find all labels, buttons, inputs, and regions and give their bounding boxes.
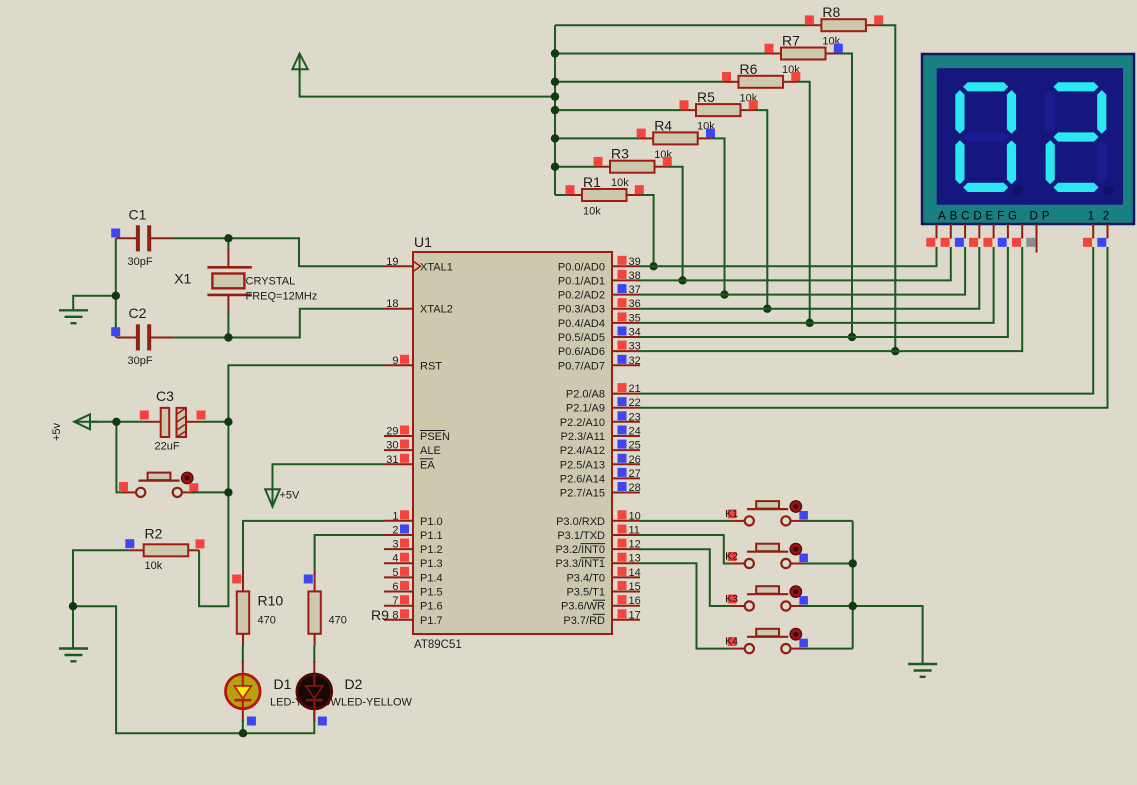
pin state marker pin 13	[618, 553, 627, 562]
svg-text:28: 28	[629, 482, 641, 494]
wire P0.6 to display segment G	[640, 247, 1022, 351]
pin state marker pin 24	[618, 426, 627, 435]
svg-text:P1.0: P1.0	[420, 516, 443, 528]
pin state marker pin 33	[618, 341, 627, 350]
svg-text:P3.0/RXD: P3.0/RXD	[556, 516, 605, 528]
svg-text:P0.7/AD7: P0.7/AD7	[558, 360, 605, 372]
pin state marker pin 27	[618, 468, 627, 477]
wire ground rail to LEDs	[73, 606, 314, 733]
svg-text:U1: U1	[414, 234, 432, 250]
svg-text:P1.7: P1.7	[420, 615, 443, 627]
pin marker reset button left	[119, 482, 128, 491]
svg-text:P3.3/INT1: P3.3/INT1	[555, 558, 605, 570]
MCU pin 36 P0.3/AD3	[558, 298, 641, 316]
svg-text:P2.1/A9: P2.1/A9	[566, 403, 605, 415]
MCU pin 2 P1.1	[384, 525, 443, 543]
wire button to RST net	[191, 491, 228, 493]
svg-text:31: 31	[386, 454, 398, 466]
pin marker R5 right	[749, 100, 758, 109]
MCU pin 34 P0.5/AD5	[558, 327, 641, 345]
bus junction row R3	[551, 163, 559, 171]
wire crystal bottom	[227, 312, 229, 338]
svg-text:15: 15	[629, 581, 641, 593]
svg-text:32: 32	[629, 355, 641, 367]
wire R5 right down to P0 line	[755, 110, 768, 309]
pin marker R5 left	[680, 100, 689, 109]
pin state marker pin 30	[400, 440, 409, 449]
svg-text:10k: 10k	[145, 560, 163, 572]
svg-text:P0.5/AD5: P0.5/AD5	[558, 332, 605, 344]
svg-text:P1.2: P1.2	[420, 544, 443, 556]
pin state marker pin 17	[618, 609, 627, 618]
svg-text:P2.7/A15: P2.7/A15	[560, 488, 605, 500]
node crystal top / C1	[224, 234, 232, 242]
wire RST net vertical	[199, 365, 384, 606]
node crystal bottom / C2	[224, 333, 232, 341]
wire R1 right down to P0 line	[641, 195, 654, 266]
wire bus to R5 left	[555, 109, 682, 111]
svg-text:C3: C3	[156, 388, 174, 404]
svg-text:K4: K4	[725, 636, 738, 648]
node P0.3 pull-up junction	[763, 305, 771, 313]
svg-text:K3: K3	[725, 593, 738, 605]
svg-text:10: 10	[629, 510, 641, 522]
node P0.2 pull-up junction	[720, 290, 728, 298]
svg-text:CRYSTAL: CRYSTAL	[246, 276, 296, 288]
resistor R1 10k	[568, 174, 641, 218]
wire bus to R1 left	[555, 194, 568, 196]
svg-text:33: 33	[629, 341, 641, 353]
pin state marker pin 32	[618, 355, 627, 364]
node P0.1 pull-up junction	[678, 276, 686, 284]
wire K4 right to common	[804, 648, 853, 650]
svg-text:29: 29	[386, 426, 398, 438]
MCU pin 26 P2.5/A13	[560, 454, 641, 472]
svg-text:30pF: 30pF	[128, 256, 153, 268]
wire C2 to XTAL2	[174, 309, 384, 338]
MCU pin 5 P1.4	[384, 567, 443, 585]
pin marker R2 right	[196, 539, 205, 548]
wire bus to R8 left	[555, 24, 807, 26]
pin state marker pin 38	[618, 270, 627, 279]
MCU pin 31 EA	[384, 454, 435, 472]
svg-text:5: 5	[392, 567, 398, 579]
pin marker D2 bottom	[318, 717, 327, 726]
pin state marker pin 39	[618, 256, 627, 265]
display digit 1 showing 0	[955, 82, 1023, 196]
pin state marker pin 4	[400, 553, 409, 562]
resistor R5 10k	[682, 89, 755, 133]
wire K1 right to common	[804, 520, 853, 522]
wire from +5V terminal to bus	[300, 69, 555, 96]
pin marker R3 left	[594, 157, 603, 166]
svg-text:R10: R10	[258, 593, 284, 609]
MCU pin 23 P2.2/A10	[560, 411, 641, 429]
svg-text:P1.6: P1.6	[420, 601, 443, 613]
svg-text:X1: X1	[174, 271, 191, 287]
svg-text:P2.6/A14: P2.6/A14	[560, 473, 605, 485]
push button K3	[732, 586, 804, 611]
MCU pin 29 PSEN	[384, 426, 450, 444]
pin state marker pin 22	[618, 397, 627, 406]
pin marker K2 right	[799, 554, 808, 563]
pin state marker pin 23	[618, 411, 627, 420]
svg-text:16: 16	[629, 595, 641, 607]
pin marker R7 left	[765, 44, 774, 53]
wire +5v to C3	[90, 421, 147, 423]
svg-text:ABCDEFG: ABCDEFG	[938, 211, 1021, 223]
MCU pin 4 P1.3	[384, 553, 443, 571]
wire bus to R3 left	[555, 166, 596, 168]
svg-text:R4: R4	[654, 117, 672, 133]
wire P2.0/A8 to display digit-1 common	[640, 247, 1093, 394]
resistor R10 470	[237, 570, 284, 646]
pin state marker pin 36	[618, 298, 627, 307]
wire P0.1 to display segment B	[640, 247, 951, 280]
wire +5v node down to button	[116, 422, 127, 493]
display pin F	[1007, 224, 1009, 239]
display pin digit 1	[1092, 224, 1094, 239]
pin marker reset button right	[189, 483, 198, 492]
svg-text:AT89C51: AT89C51	[414, 639, 462, 651]
node C1-C2 ground tap	[112, 292, 120, 300]
resistor R7 10k	[767, 33, 840, 77]
pin state marker pin 14	[618, 567, 627, 576]
node D1/ground rail	[239, 729, 247, 737]
svg-text:22uF: 22uF	[155, 441, 180, 453]
wire P3.2 to K3	[640, 549, 732, 606]
svg-text:+5v: +5v	[51, 422, 63, 441]
wire to D2	[313, 646, 315, 663]
svg-text:37: 37	[629, 284, 641, 296]
svg-text:P0.0/AD0: P0.0/AD0	[558, 261, 605, 273]
7-segment dual display (7SEG-MPX2-CC) showing 02	[922, 54, 1134, 224]
display pin B	[950, 224, 952, 239]
pin marker K3 left	[728, 595, 737, 604]
svg-text:ALE: ALE	[420, 445, 441, 457]
pin marker R8 right	[874, 15, 883, 24]
svg-text:P0.3/AD3: P0.3/AD3	[558, 304, 605, 316]
op-amp U1 AT89C51 microcontroller body	[413, 234, 612, 651]
power terminal +5V (EA pin)	[265, 487, 300, 507]
pin state marker pin 6	[400, 581, 409, 590]
wire P0.4 to display segment E	[640, 247, 994, 323]
resistor R2 10k	[130, 526, 199, 573]
pin state marker pin 12	[618, 539, 627, 548]
svg-text:36: 36	[629, 298, 641, 310]
svg-text:470: 470	[258, 615, 276, 627]
svg-text:P0.1/AD1: P0.1/AD1	[558, 275, 605, 287]
svg-text:P1.4: P1.4	[420, 572, 443, 584]
pin marker R2 left	[125, 539, 134, 548]
wire R8 right down to P0 line	[880, 25, 895, 351]
MCU pin 33 P0.6/AD6	[558, 341, 641, 359]
pin marker K1 left	[728, 509, 737, 518]
svg-text:C1: C1	[129, 207, 147, 223]
svg-text:10k: 10k	[583, 206, 601, 218]
wire C3 right	[200, 421, 228, 423]
svg-text:P0.4/AD4: P0.4/AD4	[558, 318, 605, 330]
svg-text:R2: R2	[145, 526, 163, 542]
svg-text:P2.2/A10: P2.2/A10	[560, 417, 605, 429]
pin state marker pin 16	[618, 595, 627, 604]
wire C1 to XTAL1	[174, 238, 384, 266]
svg-text:P1.5: P1.5	[420, 587, 443, 599]
MCU pin 38 P0.1/AD1	[558, 270, 641, 288]
svg-text:P2.4/A12: P2.4/A12	[560, 445, 605, 457]
MCU pin 13 P3.3/INT1	[555, 553, 640, 571]
bus junction row R4	[551, 134, 559, 142]
pin marker C1 left	[111, 229, 120, 238]
svg-text:P2.5/A13: P2.5/A13	[560, 459, 605, 471]
MCU pin 25 P2.4/A12	[560, 440, 641, 458]
ground (crystal circuit)	[59, 310, 88, 323]
MCU pin 35 P0.4/AD4	[558, 312, 641, 330]
MCU pin 30 ALE	[384, 440, 441, 458]
svg-text:D1: D1	[274, 676, 292, 692]
svg-text:11: 11	[629, 525, 640, 537]
node R2/ground	[69, 602, 77, 610]
wire R2 left to ground	[73, 550, 130, 648]
capacitor C1 30pF	[116, 207, 174, 268]
svg-text:26: 26	[629, 454, 641, 466]
svg-text:R6: R6	[740, 61, 758, 77]
svg-text:XTAL2: XTAL2	[420, 304, 453, 316]
svg-text:24: 24	[629, 426, 641, 438]
svg-text:7: 7	[392, 595, 398, 607]
MCU pin 27 P2.6/A14	[560, 468, 641, 486]
svg-text:23: 23	[629, 411, 641, 423]
svg-text:35: 35	[629, 312, 641, 324]
svg-text:25: 25	[629, 440, 641, 452]
wire P0.3 to display segment D	[640, 247, 979, 309]
display pin C	[964, 224, 966, 239]
svg-text:18: 18	[386, 298, 398, 310]
MCU pin 19 XTAL1	[384, 256, 453, 274]
pin state marker pin 28	[618, 482, 627, 491]
MCU pin 37 P0.2/AD2	[558, 284, 641, 302]
svg-text:3: 3	[392, 539, 398, 551]
pin state marker pin 10	[618, 510, 627, 519]
wire P0.5 to display segment F	[640, 247, 1008, 337]
wire bus to R7 left	[555, 53, 767, 55]
MCU pin 39 P0.0/AD0	[558, 256, 641, 274]
node button/RST/R2	[224, 488, 232, 496]
LED D2 LED-YELLOW (off)	[297, 646, 413, 722]
pin state marker pin 34	[618, 327, 627, 336]
resistor R6 10k	[725, 61, 798, 105]
wire D1 to ground rail	[242, 720, 244, 733]
resistor R4 10k	[639, 117, 712, 161]
svg-text:12: 12	[629, 539, 641, 551]
pin state marker pin 26	[618, 454, 627, 463]
push button K2	[732, 543, 804, 568]
bus junction +5V feed	[551, 92, 559, 100]
svg-text:R1: R1	[583, 174, 601, 190]
pin marker R1 right	[635, 185, 644, 194]
resistor R8 10k	[807, 4, 880, 48]
svg-text:P3.1/TXD: P3.1/TXD	[557, 530, 605, 542]
LED D1 LED-YELLOW (lit)	[226, 646, 342, 722]
power terminal +5v (left, reset circuit)	[51, 414, 98, 441]
pin state marker pin 9	[400, 355, 409, 364]
MCU pin 17 P3.7/RD	[563, 609, 640, 627]
push button K1	[732, 501, 804, 526]
svg-text:LED-YELLOW: LED-YELLOW	[341, 697, 413, 709]
wire K2 right to common	[804, 563, 853, 565]
svg-text:R3: R3	[611, 146, 629, 162]
pin state marker pin 35	[618, 312, 627, 321]
svg-text:8: 8	[392, 609, 398, 621]
svg-text:K1: K1	[725, 508, 738, 520]
display digit 2 showing 2	[1046, 82, 1114, 196]
svg-text:22: 22	[629, 397, 641, 409]
pin marker D1 bottom	[247, 717, 256, 726]
svg-text:6: 6	[392, 581, 398, 593]
svg-text:PSEN: PSEN	[420, 431, 450, 443]
svg-text:FREQ=12MHz: FREQ=12MHz	[246, 291, 318, 303]
vertical pull-up bus	[554, 25, 556, 195]
display pin D	[978, 224, 980, 239]
MCU pin 8 P1.7	[384, 609, 443, 627]
pin state marker pin 1	[400, 510, 409, 519]
pin state marker pin 25	[618, 440, 627, 449]
svg-text:4: 4	[392, 553, 398, 565]
wire K common to ground	[853, 606, 923, 664]
display pin E	[993, 224, 995, 239]
display pin G	[1021, 224, 1023, 239]
svg-text:XTAL1: XTAL1	[420, 261, 453, 273]
resistor R3 10k	[596, 146, 669, 190]
pin marker R9 top	[304, 575, 313, 584]
MCU pin 3 P1.2	[384, 539, 443, 557]
svg-text:19: 19	[386, 256, 398, 268]
wire R7 right down to P0 line	[840, 54, 853, 338]
wire R4 right down to P0 line	[712, 138, 725, 294]
pin marker R3 right	[663, 157, 672, 166]
MCU pin 12 P3.2/INT0	[555, 539, 640, 557]
display pin digit 2	[1107, 224, 1109, 239]
MCU pin 15 P3.5/T1	[566, 581, 640, 599]
wire P3.1 to K2	[640, 535, 732, 564]
crystal X1 CRYSTAL FREQ=12MHz	[174, 238, 317, 337]
pin state marker pin 29	[400, 426, 409, 435]
svg-text:21: 21	[629, 383, 641, 395]
svg-text:34: 34	[629, 327, 641, 339]
svg-text:30: 30	[386, 440, 398, 452]
pin marker R4 right	[706, 129, 715, 138]
svg-text:10k: 10k	[611, 177, 629, 189]
svg-text:P3.7/RD: P3.7/RD	[563, 615, 605, 627]
svg-text:EA: EA	[420, 459, 435, 471]
ground (buttons)	[908, 664, 937, 677]
svg-text:RST: RST	[420, 360, 442, 372]
svg-text:C2: C2	[129, 305, 147, 321]
push button reset button	[123, 472, 195, 497]
MCU pin 28 P2.7/A15	[560, 482, 641, 500]
svg-text:14: 14	[629, 567, 641, 579]
wire bus to R4 left	[555, 137, 639, 139]
pin state marker pin 15	[618, 581, 627, 590]
MCU pin 1 P1.0	[384, 510, 443, 528]
pin marker R7 right	[834, 44, 843, 53]
svg-text:P3.4/T0: P3.4/T0	[566, 572, 605, 584]
capacitor C3 22uF (electrolytic)	[147, 388, 201, 453]
wire K3 right to common	[804, 605, 853, 607]
MCU pin 32 P0.7/AD7	[558, 355, 641, 373]
svg-text:P3.6/WR: P3.6/WR	[561, 601, 605, 613]
svg-text:P0.2/AD2: P0.2/AD2	[558, 290, 605, 302]
svg-text:2: 2	[392, 525, 398, 537]
svg-text:K2: K2	[725, 551, 738, 563]
pin state marker pin 5	[400, 567, 409, 576]
svg-text:P2.0/A8: P2.0/A8	[566, 389, 605, 401]
node K2 common	[849, 559, 857, 567]
MCU pin 11 P3.1/TXD	[557, 525, 640, 543]
node C3/RST	[224, 418, 232, 426]
pin marker R10 top	[232, 575, 241, 584]
pin marker C3 left	[140, 411, 149, 420]
svg-text:R9: R9	[371, 607, 389, 623]
bus junction row R5	[551, 106, 559, 114]
bus junction row R7	[551, 49, 559, 57]
node P0.6 pull-up junction	[891, 347, 899, 355]
svg-text:38: 38	[629, 270, 641, 282]
pin marker R8 left	[805, 15, 814, 24]
node P0.0 pull-up junction	[649, 262, 657, 270]
wire R3 right down to P0 line	[669, 167, 683, 281]
MCU pin 10 P3.0/RXD	[556, 510, 641, 528]
pin marker C2 left	[111, 327, 120, 336]
svg-text:17: 17	[629, 609, 641, 621]
svg-text:30pF: 30pF	[128, 355, 153, 367]
svg-text:P0.6/AD6: P0.6/AD6	[558, 346, 605, 358]
pin marker K4 left	[728, 637, 737, 646]
capacitor C2 30pF	[116, 305, 174, 367]
MCU pin 14 P3.4/T0	[566, 567, 640, 585]
bus junction row R6	[551, 78, 559, 86]
MCU pin 7 P1.6	[384, 595, 443, 613]
pin marker R6 left	[722, 72, 731, 81]
pin marker R1 left	[566, 185, 575, 194]
MCU pin 22 P2.1/A9	[566, 397, 641, 415]
MCU pin 21 P2.0/A8	[566, 383, 641, 401]
pin state marker pin 8	[400, 609, 409, 618]
wire P3.3 to K4	[640, 563, 732, 648]
wire P2.1/A9 to display digit-2 common	[640, 247, 1108, 408]
node P0.4 pull-up junction	[806, 319, 814, 327]
pin state marker pin 11	[618, 525, 627, 534]
pin state marker pin 3	[400, 539, 409, 548]
wire P3.0 to K1	[640, 520, 732, 522]
svg-text:1: 1	[392, 510, 398, 522]
ground (R2 / LED circuit)	[59, 649, 88, 662]
svg-text:2: 2	[1103, 211, 1109, 223]
pin marker K3 right	[799, 596, 808, 605]
resistor R9 470	[308, 570, 389, 646]
pin state marker pin 7	[400, 595, 409, 604]
wire EA to +5V	[273, 464, 385, 490]
wire P1.1 to R9	[315, 535, 384, 575]
svg-text:13: 13	[629, 553, 641, 565]
svg-text:9: 9	[392, 355, 398, 367]
wire C1-C2 left vertical	[115, 238, 117, 337]
svg-text:R5: R5	[697, 89, 715, 105]
svg-text:DP: DP	[1030, 211, 1054, 223]
node +5v/C3/button	[112, 418, 120, 426]
svg-text:R8: R8	[822, 4, 840, 20]
display pin A	[936, 224, 938, 239]
